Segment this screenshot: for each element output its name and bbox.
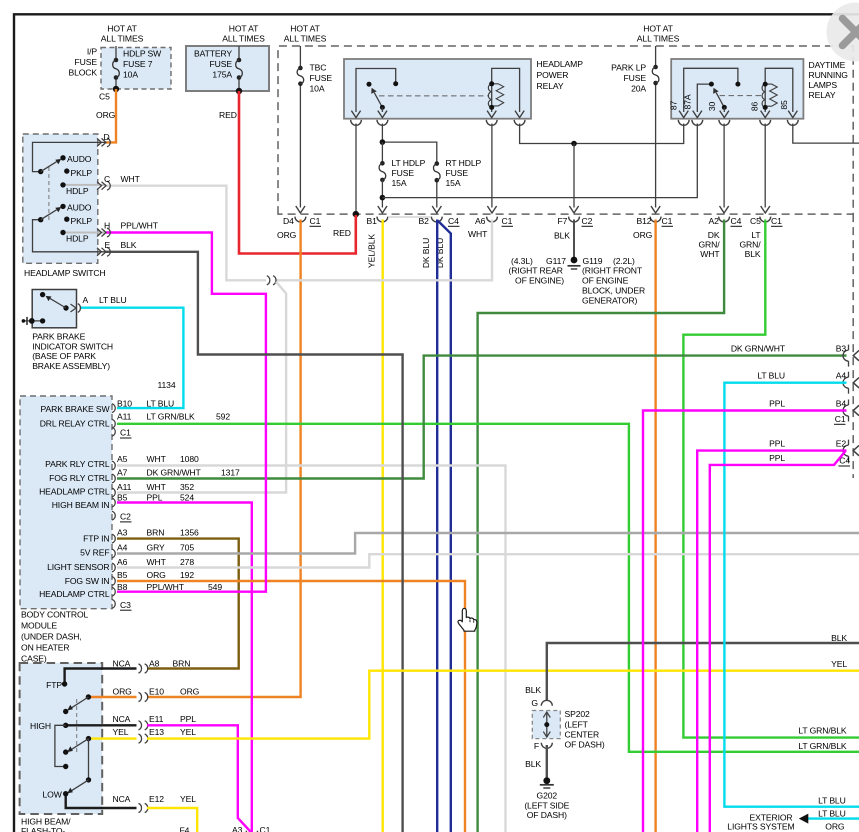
svg-text:BLK: BLK — [831, 633, 847, 643]
svg-text:ALL TIMES: ALL TIMES — [284, 34, 327, 44]
svg-text:C: C — [104, 174, 110, 184]
pin label C5 C1 — [750, 216, 783, 226]
svg-text:HOT AT: HOT AT — [290, 24, 320, 34]
label HOT AT ALL TIMES x658 — [637, 24, 680, 44]
relay K2 switch bracket pin 87 — [684, 68, 738, 112]
svg-text:524: 524 — [180, 492, 194, 502]
relay K1 coil — [492, 68, 520, 112]
svg-text:FUSE: FUSE — [392, 168, 415, 178]
svg-text:ORG: ORG — [277, 230, 297, 240]
svg-text:RUNNING: RUNNING — [809, 70, 849, 80]
wire BLK F7 to ground — [573, 220, 575, 258]
svg-text:C1: C1 — [771, 216, 782, 226]
wire DRL 85 to right edge — [793, 124, 859, 144]
svg-text:BRN: BRN — [173, 658, 191, 668]
svg-text:LT BLU: LT BLU — [147, 398, 175, 408]
relay K1 pin sockets — [351, 120, 525, 125]
svg-text:TBC: TBC — [310, 63, 327, 73]
svg-text:PPL/WHT: PPL/WHT — [121, 221, 159, 231]
wire DK BLU 1 from B2 — [436, 220, 438, 832]
label HDLP SW FUSE 7 10A — [123, 49, 162, 80]
pin sockets on box bottom edge — [295, 217, 771, 222]
svg-text:PARK RLY CTRL: PARK RLY CTRL — [45, 459, 110, 469]
BCM wire color names — [147, 398, 202, 592]
svg-text:E: E — [105, 240, 111, 250]
svg-text:LT: LT — [751, 230, 761, 240]
wire LT BLU A4 to bottom right — [724, 383, 859, 807]
svg-text:BLK: BLK — [121, 240, 137, 250]
label HOT AT ALL TIMES x122 — [101, 24, 144, 44]
svg-text:OF ENGINE: OF ENGINE — [582, 276, 629, 286]
svg-text:WHT: WHT — [700, 249, 720, 259]
svg-text:C5: C5 — [99, 92, 110, 102]
svg-text:E12: E12 — [149, 794, 164, 804]
BCM function labels — [39, 404, 110, 599]
svg-text:WHT: WHT — [147, 454, 167, 464]
svg-text:E2: E2 — [836, 439, 847, 449]
label BODY CONTROL MODULE — [21, 610, 89, 664]
wire DK BLU 2 from B2 — [438, 221, 451, 832]
label I/P FUSE BLOCK — [68, 47, 97, 78]
bracket HIGH to lower contact — [55, 725, 66, 766]
svg-text:(RIGHT FRONT: (RIGHT FRONT — [582, 266, 643, 276]
fuse HDLP SW FUSE 7 10A — [113, 58, 120, 80]
wire relay K1 pin to node RED splice — [355, 124, 357, 215]
headlamp switch box — [23, 134, 98, 263]
pin B3 right edge — [731, 344, 859, 367]
svg-text:192: 192 — [180, 570, 194, 580]
wire ORG D4 to switch E10 row — [147, 220, 301, 698]
wire YEL E13 right and up to right edge — [147, 671, 859, 739]
label G119 2.2L location — [582, 256, 645, 306]
wire feed HDLP SW fuse — [115, 46, 117, 89]
svg-text:BLK: BLK — [525, 759, 541, 769]
label LT HDLP FUSE 15A — [392, 158, 426, 188]
node F7 tap — [571, 141, 577, 147]
park brake switch case pigtail — [22, 317, 46, 325]
svg-text:592: 592 — [216, 412, 230, 422]
BCM connector C2 — [120, 512, 132, 522]
pin B4 C1 right edge — [769, 399, 859, 425]
svg-text:YEL: YEL — [180, 794, 196, 804]
BCM connector C1 — [120, 428, 132, 438]
label BATTERY FUSE 175A — [194, 49, 232, 80]
svg-text:A3: A3 — [117, 528, 128, 538]
park brake switch contacts — [40, 292, 69, 311]
label G202 location — [524, 791, 569, 820]
row E12 labels NCA E12 YEL — [113, 794, 197, 804]
svg-text:B2: B2 — [419, 216, 430, 226]
svg-text:A11: A11 — [117, 482, 132, 492]
svg-text:1080: 1080 — [180, 454, 199, 464]
svg-text:NCA: NCA — [113, 714, 131, 724]
svg-text:C1: C1 — [662, 216, 673, 226]
svg-text:FLASH-TO-: FLASH-TO- — [21, 826, 65, 832]
svg-text:BRAKE ASSEMBLY): BRAKE ASSEMBLY) — [32, 361, 110, 371]
svg-text:BLK: BLK — [525, 685, 541, 695]
svg-text:C2: C2 — [582, 216, 593, 226]
svg-text:87A: 87A — [683, 94, 693, 109]
svg-text:(LEFT: (LEFT — [565, 719, 589, 729]
svg-text:B1: B1 — [367, 216, 378, 226]
svg-text:F: F — [534, 741, 539, 751]
wire BLK SP202 F to G202 — [546, 745, 548, 778]
svg-text:FOG RLY CTRL: FOG RLY CTRL — [49, 473, 110, 483]
svg-text:20A: 20A — [631, 84, 646, 94]
wire BRN 1356 BCM A3 to switch A8 row — [117, 539, 239, 669]
svg-text:(BASE OF PARK: (BASE OF PARK — [32, 351, 96, 361]
ground G202 — [540, 777, 554, 788]
svg-text:FTP IN: FTP IN — [83, 533, 109, 543]
wire LT GRN/BLK 592 BCM A11 to bottom right — [117, 424, 859, 752]
label PARK BRAKE INDICATOR SWITCH — [32, 332, 113, 371]
svg-text:175A: 175A — [212, 70, 232, 80]
wire relay K1 coil to A6 — [491, 124, 493, 208]
wire PPL/WHT 549 BCM B8 to headlamp switch H — [106, 233, 266, 592]
wire PPL E2 lower down — [710, 451, 846, 832]
label TBC FUSE 10A — [310, 63, 333, 94]
relay K2 coil pins 86 85 — [765, 68, 793, 112]
svg-text:LT BLU: LT BLU — [818, 808, 846, 818]
svg-text:LT GRN/BLK: LT GRN/BLK — [798, 726, 847, 736]
svg-text:BLK: BLK — [554, 231, 570, 241]
svg-text:LT BLU: LT BLU — [757, 371, 785, 381]
relay K2 pin sockets — [678, 120, 798, 125]
svg-text:ORG: ORG — [96, 110, 116, 120]
svg-text:LOW: LOW — [43, 790, 63, 800]
svg-text:C4: C4 — [731, 216, 742, 226]
pin E2 C4 right edge — [769, 439, 859, 466]
wire LT BLU from exterior lights — [807, 817, 859, 819]
svg-text:LIGHT SENSOR: LIGHT SENSOR — [47, 562, 109, 572]
svg-text:A6: A6 — [475, 216, 486, 226]
svg-text:1356: 1356 — [180, 528, 199, 538]
svg-text:278: 278 — [180, 557, 194, 567]
relay K2 armature pin 30 — [716, 93, 724, 108]
pin arrows on box bottom edge — [296, 206, 770, 213]
svg-text:LAMPS: LAMPS — [809, 80, 838, 90]
svg-text:BATTERY: BATTERY — [194, 49, 232, 59]
wire LT GRN/BLK C5 to bottom right — [683, 220, 859, 738]
svg-text:1317: 1317 — [221, 467, 240, 477]
svg-text:HDLP: HDLP — [66, 233, 89, 243]
relay K1 pin arrows — [351, 111, 524, 118]
svg-text:(UNDER DASH,: (UNDER DASH, — [21, 632, 82, 642]
relay K1 armature — [374, 93, 382, 108]
high beam switch HIGH contact wire row E11 — [66, 724, 137, 726]
wire PPL E2 upper down — [697, 451, 846, 832]
wire BLK right edge to SP202 G — [547, 643, 859, 701]
label HIGH BEAM FLASH-TO — [21, 817, 71, 832]
SP202 top socket — [541, 700, 552, 706]
pin label A6 C1 — [475, 216, 513, 226]
svg-text:1134: 1134 — [158, 380, 176, 390]
svg-text:A7: A7 — [117, 467, 128, 477]
svg-text:C1: C1 — [835, 414, 846, 424]
svg-text:PPL: PPL — [769, 399, 785, 409]
svg-text:HIGH BEAM IN: HIGH BEAM IN — [52, 500, 110, 510]
wire YEL/BLK B1 down — [382, 220, 384, 832]
wire PARK LP fuse feed — [655, 46, 657, 208]
svg-text:PKLP: PKLP — [71, 216, 93, 226]
svg-text:SP202: SP202 — [565, 709, 591, 719]
park brake switch box — [32, 290, 76, 328]
svg-text:AUDO: AUDO — [67, 154, 92, 164]
splice SP202 internal — [543, 712, 550, 737]
svg-text:NCA: NCA — [113, 794, 131, 804]
wire GRY 705 BCM A4 right — [117, 533, 859, 554]
svg-text:PARK BRAKE: PARK BRAKE — [32, 332, 85, 342]
svg-text:B4: B4 — [836, 399, 847, 409]
svg-text:F7: F7 — [558, 216, 568, 226]
svg-text:HDLP: HDLP — [66, 186, 89, 196]
svg-text:OF DASH): OF DASH) — [565, 740, 605, 750]
svg-text:PARK LP: PARK LP — [611, 63, 646, 73]
svg-text:FOG SW IN: FOG SW IN — [65, 576, 110, 586]
junction node C5 — [113, 86, 119, 92]
headlamp switch HDLP1 stub to C — [63, 184, 106, 186]
svg-text:WHT: WHT — [147, 482, 167, 492]
pin label B2 C4 — [419, 216, 460, 226]
svg-text:A4: A4 — [836, 371, 847, 381]
svg-text:HDLP SW: HDLP SW — [123, 49, 162, 59]
svg-text:HOT AT: HOT AT — [107, 24, 137, 34]
svg-text:ALL TIMES: ALL TIMES — [222, 34, 265, 44]
svg-text:86: 86 — [750, 102, 760, 112]
wire ORG fuse C5 to headlamp switch D — [106, 89, 116, 142]
svg-text:G: G — [531, 698, 538, 708]
svg-text:FUSE: FUSE — [624, 73, 647, 83]
BCM box — [20, 396, 112, 609]
svg-text:PPL: PPL — [180, 714, 196, 724]
svg-text:C1: C1 — [310, 216, 321, 226]
svg-text:ALL TIMES: ALL TIMES — [637, 34, 680, 44]
bottom pin socket — [246, 831, 257, 832]
high beam switch FTP contact and wire to A8 — [65, 669, 137, 685]
wire relay coil ground bus to DRL 87 — [520, 124, 684, 144]
svg-text:HIGH BEAM/: HIGH BEAM/ — [21, 817, 71, 827]
wire DRL 86 to C5 — [764, 124, 766, 208]
BCM wire numbers — [180, 412, 240, 593]
label DAYTIME RUNNING LAMPS RELAY — [809, 60, 849, 100]
svg-text:G117: G117 — [546, 256, 566, 266]
svg-text:DK GRN/WHT: DK GRN/WHT — [731, 344, 786, 354]
arrow to exterior lights system — [799, 814, 809, 824]
svg-text:(LEFT SIDE: (LEFT SIDE — [524, 800, 569, 810]
svg-text:15A: 15A — [446, 178, 461, 188]
svg-text:30: 30 — [707, 102, 717, 112]
svg-text:B5: B5 — [117, 570, 128, 580]
high beam switch mech link dashed — [76, 699, 78, 752]
label RT HDLP FUSE 15A — [446, 158, 482, 188]
relay K1 switch bracket — [356, 69, 396, 113]
fuse PARK LP FUSE 20A — [652, 65, 659, 86]
svg-text:PPL: PPL — [769, 453, 785, 463]
svg-text:H: H — [104, 221, 110, 231]
svg-text:HIGH: HIGH — [30, 721, 51, 731]
svg-text:OF ENGINE): OF ENGINE) — [515, 276, 564, 286]
svg-text:DK: DK — [708, 230, 720, 240]
svg-text:ORG: ORG — [825, 822, 845, 832]
svg-text:FUSE: FUSE — [310, 73, 333, 83]
svg-text:C2: C2 — [120, 512, 131, 522]
svg-text:C4: C4 — [448, 216, 459, 226]
svg-text:A: A — [83, 295, 89, 305]
row E13 labels YEL E13 YEL — [113, 727, 197, 737]
row E11 labels NCA E11 PPL — [113, 714, 197, 724]
park brake switch pin A — [71, 304, 77, 312]
relay K2 DAYTIME RUNNING LAMPS RELAY box — [671, 59, 803, 119]
svg-text:HOT AT: HOT AT — [643, 24, 673, 34]
svg-text:A5: A5 — [117, 454, 128, 464]
fuse TBC FUSE 10A — [297, 66, 304, 86]
svg-text:HOT AT: HOT AT — [229, 24, 259, 34]
wire WHT A6 to headlamp switch C — [275, 220, 492, 281]
node LT fuse out B1 — [380, 195, 386, 201]
svg-text:GRN/: GRN/ — [698, 240, 720, 250]
svg-text:FUSE: FUSE — [210, 59, 233, 69]
headlamp switch position labels wafer1 — [66, 154, 92, 196]
wire YEL E12 to bottom pin F4 — [147, 808, 197, 832]
junction node battery fuse out — [236, 88, 242, 94]
fuse RT HDLP FUSE 15A — [434, 161, 441, 182]
wire relay K1 switch out to fuse feeds — [382, 124, 436, 208]
high beam switch pivot2 wire YEL row E13 — [89, 737, 137, 739]
fuse LT HDLP FUSE 15A — [381, 142, 383, 163]
svg-text:ORG: ORG — [180, 686, 200, 696]
wire ORG 192 BCM B5 down — [117, 581, 465, 832]
svg-text:MODULE: MODULE — [21, 621, 57, 631]
svg-text:RELAY: RELAY — [809, 90, 836, 100]
svg-text:PKLP: PKLP — [71, 168, 93, 178]
svg-text:GENERATOR): GENERATOR) — [582, 296, 638, 306]
wire ORG B12 down — [654, 220, 656, 832]
headlamp switch mech link dashed — [48, 167, 50, 222]
headlamp switch wafer 2 arm — [41, 210, 57, 220]
headlamp switch position labels wafer2 — [66, 203, 92, 244]
svg-text:5V REF: 5V REF — [80, 547, 109, 557]
headlamp switch wire D bracket — [33, 142, 107, 171]
svg-text:DK GRN/WHT: DK GRN/WHT — [147, 467, 202, 477]
label SP202 location — [565, 709, 605, 750]
headlamp switch HDLP2 stub to H — [63, 232, 106, 234]
headlamp switch wafer 1 arm — [41, 162, 57, 172]
svg-text:POWER: POWER — [537, 70, 569, 80]
svg-text:DRL RELAY CTRL: DRL RELAY CTRL — [40, 419, 110, 429]
svg-text:HEADLAMP CTRL: HEADLAMP CTRL — [39, 589, 110, 599]
svg-text:BODY CONTROL: BODY CONTROL — [21, 610, 89, 620]
svg-text:E13: E13 — [149, 727, 164, 737]
svg-text:C1: C1 — [502, 216, 513, 226]
svg-text:YEL/BLK: YEL/BLK — [367, 234, 377, 268]
svg-text:HEADLAMP CTRL: HEADLAMP CTRL — [39, 487, 110, 497]
relay K2 pin arrows — [679, 111, 797, 118]
svg-text:ORG: ORG — [147, 570, 167, 580]
high beam switch arm3 — [72, 780, 89, 791]
wire DRL 30 to A2 — [723, 124, 725, 208]
node RED splice on box edge — [353, 211, 359, 217]
svg-text:RT HDLP: RT HDLP — [446, 158, 482, 168]
svg-text:C1: C1 — [260, 825, 271, 832]
relay K1 actuation dashed link — [379, 95, 488, 97]
svg-text:549: 549 — [208, 582, 222, 592]
wire BLK headlamp switch E down — [106, 252, 403, 832]
svg-text:AUDO: AUDO — [67, 203, 92, 213]
svg-text:BLK: BLK — [745, 249, 761, 259]
wire feed battery fuse — [238, 46, 240, 91]
svg-text:WHT: WHT — [147, 557, 167, 567]
pin label D4 C1 — [283, 216, 321, 226]
battery fuse box — [186, 46, 269, 91]
svg-text:10A: 10A — [310, 84, 325, 94]
svg-text:YEL: YEL — [831, 659, 847, 669]
SP202 bottom socket — [541, 743, 552, 749]
underhood fuse block dashed box — [278, 46, 853, 214]
svg-text:FUSE: FUSE — [75, 57, 98, 67]
connector inline on WHT wire — [267, 276, 276, 285]
svg-text:LT HDLP: LT HDLP — [392, 158, 426, 168]
label HOT AT ALL TIMES x305 — [284, 24, 327, 44]
svg-text:A3: A3 — [232, 825, 243, 832]
wire DK GRN/WHT A2 down-left-down — [478, 220, 724, 832]
headlamp switch wire E bracket — [33, 220, 107, 252]
row A8 labels NCA A8 BRN — [113, 658, 191, 668]
svg-text:D4: D4 — [283, 216, 294, 226]
svg-text:C1: C1 — [120, 428, 131, 438]
headlamp switch wafer 1 contacts — [38, 155, 70, 187]
connector boundary right dashed line — [852, 214, 854, 478]
mouse cursor hand — [458, 608, 477, 631]
svg-text:LT GRN/BLK: LT GRN/BLK — [147, 412, 196, 422]
svg-text:C5: C5 — [750, 216, 761, 226]
svg-text:G119: G119 — [583, 256, 603, 266]
svg-text:PPL: PPL — [769, 439, 785, 449]
wire PPL B4 down — [643, 411, 847, 832]
svg-text:B10: B10 — [117, 398, 132, 408]
bottom pin labels A3 C1 — [232, 825, 271, 832]
svg-text:PARK BRAKE SW: PARK BRAKE SW — [41, 404, 111, 414]
wire PPL 524 BCM B5 down — [117, 503, 252, 832]
label EXTERIOR LIGHTS SYSTEM — [727, 812, 794, 831]
relay K1 contact — [367, 82, 372, 87]
svg-text:DAYTIME: DAYTIME — [809, 60, 846, 70]
high beam switch arm2 — [72, 739, 89, 750]
headlamp switch pins D C H E — [97, 138, 110, 256]
close button — [827, 3, 859, 62]
label PARK LP FUSE 20A — [611, 63, 646, 94]
svg-text:RELAY: RELAY — [537, 81, 564, 91]
relay K1 HEADLAMP POWER RELAY box — [344, 59, 531, 119]
svg-text:A11: A11 — [117, 412, 132, 422]
BCM connector C3 — [120, 600, 132, 610]
svg-text:HEADLAMP SWITCH: HEADLAMP SWITCH — [24, 268, 106, 278]
svg-text:HEADLAMP: HEADLAMP — [537, 59, 584, 69]
svg-text:LT BLU: LT BLU — [818, 795, 846, 805]
svg-text:ORG: ORG — [633, 230, 653, 240]
svg-text:B8: B8 — [117, 582, 128, 592]
svg-text:NCA: NCA — [113, 658, 131, 668]
svg-text:705: 705 — [180, 543, 194, 553]
svg-text:E10: E10 — [149, 686, 164, 696]
splice SP202 box — [532, 711, 560, 739]
svg-text:YEL: YEL — [180, 727, 196, 737]
svg-text:87: 87 — [669, 101, 679, 111]
svg-text:LT BLU: LT BLU — [99, 295, 127, 305]
wire LT BLU park brake to BCM B10 — [81, 308, 183, 408]
relay K2 pin labels 87 87A 30 86 85 — [669, 94, 790, 111]
pin A4 right edge — [757, 371, 859, 394]
svg-text:LT GRN/BLK: LT GRN/BLK — [798, 741, 847, 751]
